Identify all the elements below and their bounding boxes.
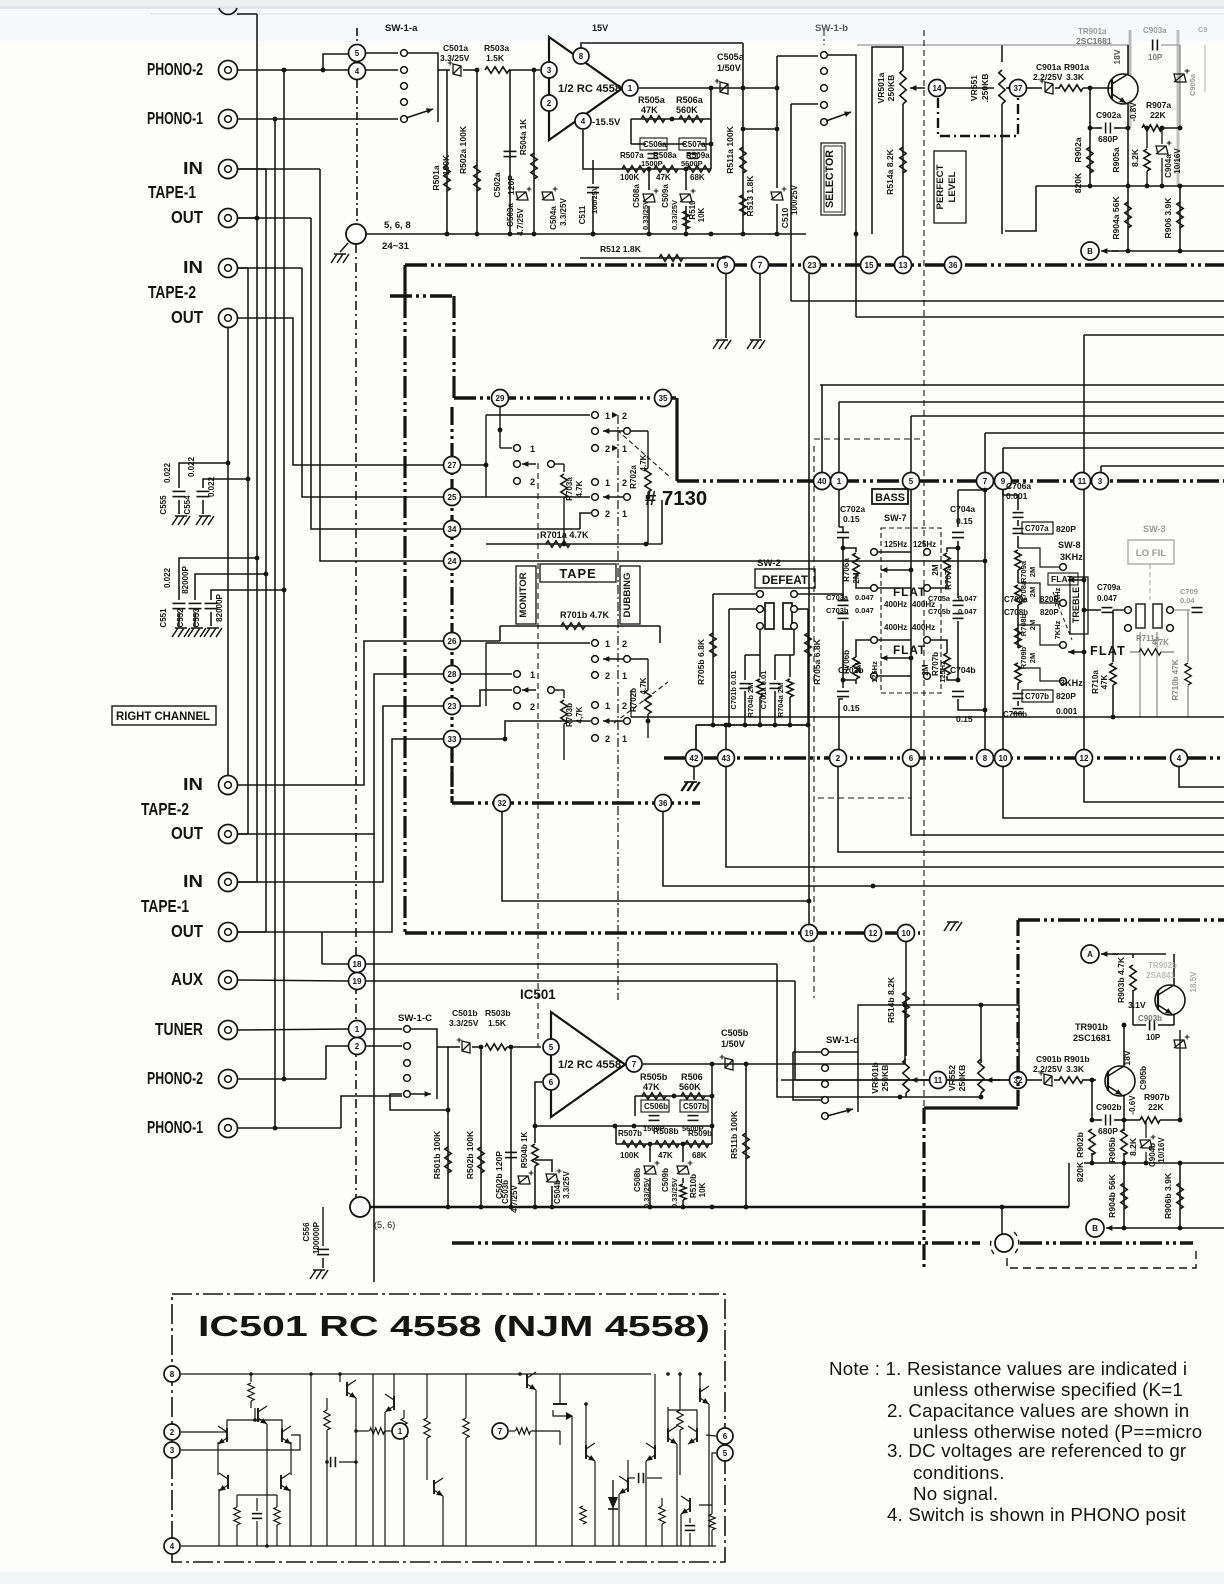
svg-text:100/25V: 100/25V <box>590 186 599 214</box>
svg-text:R509b: R509b <box>688 1129 712 1138</box>
svg-text:26: 26 <box>448 637 457 646</box>
svg-text:R512 1.8K: R512 1.8K <box>600 244 642 254</box>
svg-text:OUT: OUT <box>171 208 203 227</box>
svg-text:3.3/25V: 3.3/25V <box>449 1018 479 1028</box>
wire 15V rail <box>581 43 743 48</box>
wire bass right taps <box>911 551 931 553</box>
svg-text:C552: C552 <box>176 608 185 628</box>
svg-text:32: 32 <box>498 799 507 808</box>
resistor R508b <box>655 1141 679 1147</box>
svg-text:1: 1 <box>530 670 535 680</box>
bus vertical x405 <box>403 296 406 933</box>
svg-text:R904b 56K: R904b 56K <box>1107 1173 1117 1218</box>
pin 3 box <box>164 1442 180 1458</box>
svg-text:28: 28 <box>448 670 457 679</box>
svg-text:7: 7 <box>632 1060 637 1069</box>
svg-text:7KHz: 7KHz <box>1053 620 1062 639</box>
node 1 jack <box>349 1021 366 1038</box>
resistor R904a <box>1127 186 1129 251</box>
node 15 <box>861 257 878 274</box>
ic pin1 tap <box>354 1429 358 1433</box>
svg-text:C903a: C903a <box>1143 26 1167 35</box>
svg-text:0.33/25V: 0.33/25V <box>670 200 679 230</box>
svg-text:1: 1 <box>622 734 627 744</box>
svg-text:2. Capacitance values are sho: 2. Capacitance values are shown in <box>887 1400 1189 1421</box>
svg-text:250KB: 250KB <box>880 1065 890 1092</box>
capacitor C905b <box>1179 1030 1181 1120</box>
svg-text:37: 37 <box>1014 84 1023 93</box>
svg-text:2SC1681: 2SC1681 <box>1073 1033 1111 1043</box>
capacitor C505a <box>720 82 728 94</box>
svg-text:35: 35 <box>659 394 668 403</box>
node 42 <box>686 750 703 767</box>
svg-text:10P: 10P <box>1148 53 1163 62</box>
capacitor C904a <box>1161 128 1163 144</box>
svg-text:R707b: R707b <box>931 652 940 676</box>
label DUBBING <box>620 566 640 624</box>
svg-text:LEVEL: LEVEL <box>947 171 958 202</box>
svg-text:82000P: 82000P <box>181 566 190 594</box>
svg-text:R902b: R902b <box>1075 1132 1085 1158</box>
capacitor C702a <box>838 490 840 527</box>
wire 7-8 vertical <box>984 490 986 749</box>
wire 9-10 vertical <box>1002 490 1004 749</box>
svg-text:680P: 680P <box>1098 134 1118 144</box>
svg-text:C707a: C707a <box>1025 524 1049 533</box>
ground stub 1 <box>725 274 727 338</box>
wire defeat mid left <box>729 608 756 610</box>
mech dashed sw7 link <box>813 446 815 998</box>
svg-text:2M: 2M <box>852 572 861 583</box>
wire monitor feed 3 <box>237 217 311 219</box>
svg-text:2: 2 <box>530 702 535 712</box>
jack PHONO-1 (bottom) <box>219 1119 238 1138</box>
svg-text:7: 7 <box>498 1427 503 1436</box>
svg-text:SW-1-d: SW-1-d <box>826 1035 859 1046</box>
svg-text:TAPE-2: TAPE-2 <box>141 800 189 819</box>
svg-text:100K: 100K <box>441 154 451 175</box>
resistor R510b <box>682 1178 684 1183</box>
svg-text:FLAT: FLAT <box>893 586 926 599</box>
capacitor C703a <box>838 600 849 602</box>
label TAPE <box>540 564 616 582</box>
svg-text:TR902b: TR902b <box>1148 961 1177 970</box>
svg-text:10: 10 <box>999 754 1008 763</box>
feedback network b <box>634 1096 636 1116</box>
resistor R704b <box>759 655 761 677</box>
svg-text:C509a: C509a <box>661 184 670 208</box>
wire pin7 out <box>643 1063 905 1065</box>
capacitor C704b <box>952 690 964 692</box>
svg-text:125Hz: 125Hz <box>913 540 936 549</box>
svg-text:120P: 120P <box>506 175 516 195</box>
svg-text:1500P: 1500P <box>641 159 663 168</box>
svg-text:23: 23 <box>448 702 457 711</box>
wire sw1c output <box>437 1046 448 1048</box>
pin 8 <box>573 48 589 64</box>
svg-text:560K: 560K <box>679 1082 701 1092</box>
svg-text:R906b 3.9K: R906b 3.9K <box>1163 1172 1173 1219</box>
node 36 lower <box>655 795 672 812</box>
svg-text:2: 2 <box>170 1428 175 1437</box>
svg-text:+: + <box>526 184 532 195</box>
svg-text:R514a 8.2K: R514a 8.2K <box>885 148 895 194</box>
transistor TR901a <box>1108 74 1138 104</box>
svg-text:R902a: R902a <box>1073 137 1083 162</box>
wire bundle vertical x257 <box>256 14 258 882</box>
svg-text:5600P: 5600P <box>681 159 703 168</box>
wire node5 jog <box>323 54 348 70</box>
capacitor C503b <box>518 1176 530 1184</box>
wire step x1003 <box>1003 767 1224 818</box>
ground stub 2 <box>759 274 761 338</box>
wire SW-1-a output <box>438 69 450 71</box>
svg-text:1: 1 <box>355 1025 360 1034</box>
svg-text:68K: 68K <box>692 1151 707 1160</box>
wire bus riser right <box>1068 1163 1070 1207</box>
svg-text:400Hz: 400Hz <box>912 623 935 632</box>
dashed return loop <box>1007 1246 1196 1268</box>
pin 4 box <box>164 1538 180 1554</box>
svg-text:2M: 2M <box>931 564 940 575</box>
node 2 jack <box>349 1038 366 1055</box>
svg-text:2: 2 <box>622 411 627 421</box>
wire long h4 <box>820 384 1224 386</box>
label MONITOR <box>516 566 536 624</box>
wire TAPE-2 IN run <box>237 267 248 269</box>
wire collector up <box>1123 1012 1125 1025</box>
wire output to SW-1-b <box>777 55 818 57</box>
svg-text:1: 1 <box>605 639 610 649</box>
svg-text:C701a 0.01: C701a 0.01 <box>759 671 768 710</box>
capacitor C706b <box>1017 701 1019 706</box>
mech dashed long vertical <box>923 30 925 1108</box>
label PERFECT LEVEL <box>934 151 966 223</box>
svg-text:0.022: 0.022 <box>207 476 216 497</box>
svg-text:SW-7: SW-7 <box>884 513 907 523</box>
svg-text:15: 15 <box>865 261 874 270</box>
contact 2-1 a2 <box>592 510 599 517</box>
wire 5-6 vertical <box>910 490 912 749</box>
resistor R707b <box>956 678 961 683</box>
svg-text:+: + <box>552 184 558 195</box>
contact row 4a <box>592 479 599 486</box>
svg-text:10/16V: 10/16V <box>1173 148 1182 174</box>
svg-text:C551: C551 <box>159 608 168 628</box>
svg-text:C706a: C706a <box>1006 481 1031 491</box>
capacitor C507b <box>680 1100 708 1112</box>
svg-text:PHONO-2: PHONO-2 <box>147 1069 203 1088</box>
capacitor C703b <box>838 613 849 615</box>
svg-text:2.2/25V: 2.2/25V <box>1033 72 1063 82</box>
svg-text:2SC1681: 2SC1681 <box>1076 36 1112 46</box>
wire step x1179 <box>1179 767 1224 787</box>
wire PHONO-1 to SW-1-a <box>237 118 398 120</box>
svg-text:4: 4 <box>581 117 586 126</box>
svg-text:5: 5 <box>909 477 914 486</box>
svg-text:5: 5 <box>549 1043 554 1052</box>
svg-text:2: 2 <box>547 99 552 108</box>
svg-text:-0.8V: -0.8V <box>1129 102 1138 122</box>
svg-text:TREBLE: TREBLE <box>1071 587 1081 623</box>
svg-text:C501a: C501a <box>443 43 468 53</box>
node 18 <box>349 956 366 973</box>
svg-text:0.15: 0.15 <box>956 714 973 724</box>
resistor R511a <box>742 43 744 234</box>
svg-text:R505b: R505b <box>640 1072 668 1082</box>
node 5 tone <box>903 473 920 490</box>
svg-text:MONITOR: MONITOR <box>518 572 529 617</box>
svg-text:560K: 560K <box>676 105 698 115</box>
wire pin4 to network <box>583 130 615 169</box>
node 5 <box>349 45 366 62</box>
svg-text:10: 10 <box>902 929 911 938</box>
bus row2 <box>454 396 677 399</box>
svg-text:7: 7 <box>758 261 763 270</box>
node 11 tone <box>1074 473 1091 490</box>
label TREBLE <box>1070 577 1088 634</box>
contact 2-1 a <box>592 445 599 452</box>
resistor R502b <box>480 1047 482 1207</box>
capacitor C705b <box>953 613 964 615</box>
svg-text:C901b: C901b <box>1036 1054 1062 1064</box>
wire defeat top right <box>798 593 843 595</box>
svg-text:0.022: 0.022 <box>163 462 172 483</box>
ic misc verticals <box>465 1452 467 1546</box>
svg-text:3. DC voltages are referenced: 3. DC voltages are referenced to gr <box>887 1440 1186 1461</box>
ground symbol <box>340 243 348 252</box>
capacitor C903b <box>1133 1024 1146 1026</box>
svg-text:2M: 2M <box>921 664 930 675</box>
svg-text:1/2 RC 4558: 1/2 RC 4558 <box>558 1059 621 1071</box>
wire step x1084 <box>1084 767 1224 802</box>
svg-text:11: 11 <box>1078 477 1087 486</box>
power bus corner <box>1018 918 1224 921</box>
svg-text:3KHz: 3KHz <box>1060 678 1083 688</box>
svg-text:125Hz: 125Hz <box>884 540 907 549</box>
svg-text:1/50V: 1/50V <box>721 1039 745 1049</box>
wire 33 to cluster <box>461 738 505 740</box>
svg-text:R704a 2M: R704a 2M <box>776 683 785 718</box>
wire 18V rail top <box>857 44 1130 46</box>
svg-text:RIGHT CHANNEL: RIGHT CHANNEL <box>116 709 210 723</box>
capacitor C901a <box>1027 87 1042 89</box>
svg-text:11: 11 <box>934 1076 943 1085</box>
svg-text:# 7130: # 7130 <box>645 488 707 510</box>
label RIGHT CHANNEL <box>112 706 216 725</box>
svg-text:SW-2: SW-2 <box>757 558 781 569</box>
wire bundle vertical x284 <box>283 70 285 1079</box>
jack TAPE-1 IN (bottom) <box>219 873 238 892</box>
svg-text:C902b: C902b <box>1096 1102 1122 1112</box>
resistor R705a <box>798 608 808 610</box>
contact row 2a <box>592 428 599 435</box>
svg-text:1.5K: 1.5K <box>488 1018 507 1028</box>
svg-text:2: 2 <box>355 1042 360 1051</box>
svg-text:C904a: C904a <box>1164 154 1173 178</box>
resistor R901b <box>1059 1077 1083 1083</box>
node 26 <box>444 633 461 650</box>
svg-text:2.2/25V: 2.2/25V <box>1033 1064 1063 1074</box>
wire long h9 <box>1101 465 1224 467</box>
wire 19 down <box>795 981 1009 1080</box>
svg-text:2: 2 <box>605 734 610 744</box>
node 1 <box>831 473 848 490</box>
svg-text:C508a: C508a <box>632 184 641 208</box>
node 32 <box>494 795 511 812</box>
svg-text:1: 1 <box>622 509 627 519</box>
wire 24 long <box>461 560 985 562</box>
resistor R512 <box>580 257 726 259</box>
node B upper <box>1081 242 1099 260</box>
svg-text:unless otherwise specified (K=: unless otherwise specified (K=1 <box>913 1379 1183 1400</box>
svg-text:(5, 6): (5, 6) <box>374 1220 395 1230</box>
svg-text:-15.5V: -15.5V <box>592 117 621 128</box>
svg-text:18.5V: 18.5V <box>1189 971 1198 993</box>
bus row5 <box>405 931 920 934</box>
svg-text:10P: 10P <box>1146 1033 1161 1042</box>
resistor R711a <box>1139 649 1161 655</box>
wire SW-1-b contact4 feed <box>791 103 818 105</box>
resistor R904b <box>1123 1163 1125 1228</box>
svg-text:B: B <box>1092 1224 1098 1233</box>
jack AUX <box>219 971 238 990</box>
bass dashed box <box>881 528 941 693</box>
node 3 tone <box>1092 473 1109 490</box>
svg-text:+: + <box>456 1035 462 1046</box>
ic stage3 <box>372 1374 374 1546</box>
resistor R503b <box>485 1044 507 1050</box>
svg-text:C703a: C703a <box>826 593 849 602</box>
resistor R701b <box>499 626 501 641</box>
svg-text:TUNER: TUNER <box>155 1020 203 1039</box>
node 12 bus <box>865 925 882 942</box>
resistor R902a <box>1089 88 1091 186</box>
capacitor C511 <box>591 232 596 237</box>
jack TAPE-2 OUT (top) <box>219 309 238 328</box>
mech link dashed <box>617 430 671 478</box>
svg-text:TAPE-1: TAPE-1 <box>148 183 196 202</box>
node 24 <box>444 553 461 570</box>
svg-text:R501b 100K: R501b 100K <box>432 1130 442 1179</box>
wire 11-12 vertical <box>1083 490 1085 749</box>
svg-text:24~31: 24~31 <box>382 241 410 252</box>
resistor R907a <box>1142 125 1162 131</box>
potentiometer VR551 <box>1001 45 1003 62</box>
treble contacts upper <box>1060 564 1067 571</box>
svg-text:13: 13 <box>899 261 908 270</box>
capacitor C902b <box>1091 1080 1093 1120</box>
mech dashed monitor <box>537 463 539 1047</box>
capacitor C508b <box>648 1142 653 1147</box>
svg-text:C708b: C708b <box>1004 608 1028 617</box>
wire monitor feed 1 <box>237 318 443 465</box>
node 28 <box>444 666 461 683</box>
node 7 <box>752 257 769 274</box>
svg-text:R511b 100K: R511b 100K <box>729 1110 739 1159</box>
svg-text:+: + <box>687 1158 693 1169</box>
svg-text:B: B <box>1087 247 1093 256</box>
svg-text:18V: 18V <box>1122 1050 1132 1066</box>
svg-text:C506b: C506b <box>644 1102 668 1111</box>
wire step x663 <box>663 812 1224 886</box>
node 37 <box>1010 80 1027 97</box>
ic mirror pair <box>227 1475 229 1489</box>
bus row4 <box>664 756 1224 759</box>
svg-text:0.047: 0.047 <box>855 593 874 602</box>
svg-text:DUBBING: DUBBING <box>622 573 633 618</box>
svg-text:C709: C709 <box>1180 587 1198 596</box>
node 10 tone <box>995 750 1012 767</box>
resistor R703b <box>555 689 564 691</box>
svg-text:R710a: R710a <box>1091 670 1100 694</box>
pin 2 box <box>164 1424 180 1440</box>
svg-text:+: + <box>653 186 659 197</box>
switch tape monitor b <box>461 640 500 642</box>
svg-text:SW-8: SW-8 <box>1058 540 1081 550</box>
resistor R504b <box>533 1124 538 1129</box>
svg-text:3.3K: 3.3K <box>1066 1064 1085 1074</box>
pin 5 box <box>717 1445 733 1461</box>
jack TAPE-2 IN (top) <box>219 259 238 278</box>
treble wiper upper <box>1048 573 1078 585</box>
capacitor C504a <box>542 192 554 200</box>
svg-text:820K: 820K <box>1075 1161 1085 1182</box>
contact row lower <box>592 656 599 663</box>
wire swd left <box>781 1083 821 1085</box>
capacitor C553 <box>282 588 287 593</box>
wire monitor feed 2 <box>237 267 302 269</box>
wire vr row <box>781 1079 1009 1081</box>
svg-text:C702a: C702a <box>840 504 865 514</box>
wire AUX to 19 <box>237 980 348 981</box>
capacitor C709b <box>1174 609 1190 611</box>
svg-text:No signal.: No signal. <box>913 1483 998 1504</box>
svg-text:2: 2 <box>836 754 841 763</box>
svg-text:R703a: R703a <box>565 477 574 501</box>
svg-text:C510: C510 <box>780 208 790 229</box>
svg-text:250KB: 250KB <box>957 1065 967 1092</box>
svg-text:0.001: 0.001 <box>1006 491 1028 501</box>
resistor R710b <box>1187 610 1189 662</box>
ic second stage <box>309 1372 313 1376</box>
svg-text:OUT: OUT <box>171 824 203 843</box>
svg-text:23: 23 <box>808 261 817 270</box>
svg-text:C504a: C504a <box>549 206 558 230</box>
node 7 tone <box>977 473 994 490</box>
svg-text:.250KB: .250KB <box>980 74 990 103</box>
pin 3 <box>541 62 557 78</box>
svg-text:8.2K: 8.2K <box>1130 148 1140 167</box>
ic drive stage <box>698 1372 702 1376</box>
capacitor C905a <box>1179 45 1181 128</box>
node 27 <box>444 457 461 474</box>
wire to node43 <box>725 725 727 749</box>
svg-text:+: + <box>528 1168 534 1179</box>
svg-text:IN: IN <box>183 775 203 794</box>
svg-text:OUT: OUT <box>171 922 203 941</box>
svg-text:19: 19 <box>353 977 362 986</box>
svg-text:29: 29 <box>496 394 505 403</box>
svg-text:15V: 15V <box>592 23 608 33</box>
svg-text:R703b: R703b <box>565 703 574 727</box>
wire bundle vertical x275 <box>274 119 276 1128</box>
node 34 <box>444 521 461 538</box>
node 35 <box>655 390 672 407</box>
node A <box>1081 945 1099 963</box>
wire PHONO-2 to node 4 <box>237 69 348 71</box>
wire pin1 output <box>639 87 777 89</box>
